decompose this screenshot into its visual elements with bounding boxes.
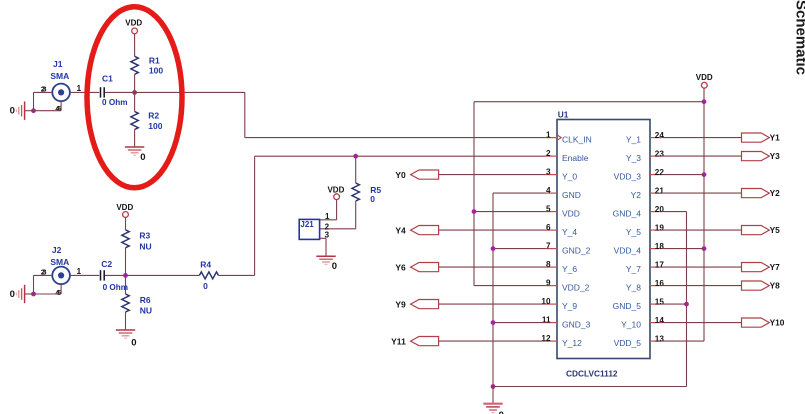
- capacitor C1: [101, 73, 128, 107]
- wire: [662, 322, 742, 324]
- wire: [125, 275, 127, 294]
- svg-text:Y_5: Y_5: [626, 227, 641, 237]
- wire: [662, 174, 705, 176]
- pin 17 stub (Y_7): [626, 260, 664, 274]
- pin 19 stub (Y_5): [626, 223, 664, 237]
- svg-text:3: 3: [546, 167, 551, 176]
- svg-text:Y7: Y7: [770, 262, 781, 272]
- wire: [493, 193, 546, 386]
- output connector Y9: [395, 299, 438, 309]
- node C2 junction: [123, 273, 128, 278]
- ground (below R6): [116, 330, 137, 349]
- svg-text:0: 0: [332, 261, 337, 272]
- svg-text:GND_3: GND_3: [562, 320, 591, 330]
- output connector Y7: [742, 262, 781, 272]
- ground (J2, rotated): [10, 285, 25, 303]
- svg-text:16: 16: [655, 279, 665, 288]
- svg-text:NU: NU: [140, 306, 152, 316]
- wire: [25, 101, 61, 111]
- svg-text:Y_12: Y_12: [562, 338, 582, 348]
- svg-text:Y0: Y0: [395, 170, 406, 180]
- svg-text:GND_4: GND_4: [613, 209, 642, 219]
- svg-text:C2: C2: [101, 259, 112, 269]
- svg-text:R4: R4: [200, 260, 211, 270]
- svg-text:24: 24: [655, 131, 665, 140]
- svg-text:Y_8: Y_8: [626, 283, 641, 293]
- wire: [320, 201, 356, 229]
- svg-text:Y8: Y8: [770, 281, 781, 291]
- svg-text:VDD: VDD: [696, 73, 713, 82]
- output connector Y2: [742, 188, 781, 198]
- svg-text:VDD_2: VDD_2: [562, 283, 590, 293]
- node GND_2 junction: [491, 246, 496, 251]
- output connector Y3: [742, 151, 781, 161]
- connector J2 SMA: [41, 245, 82, 297]
- wire: [125, 217, 127, 229]
- svg-text:5: 5: [546, 204, 551, 213]
- wire: [320, 200, 337, 220]
- output connector Y1: [742, 133, 781, 143]
- pin 10 stub (Y_9): [541, 297, 577, 311]
- svg-text:R1: R1: [149, 55, 160, 65]
- power symbol VDD (R3 top): [116, 203, 133, 218]
- wire: [134, 74, 136, 92]
- svg-text:18: 18: [655, 242, 665, 251]
- svg-text:1: 1: [546, 130, 551, 139]
- svg-text:J2: J2: [52, 245, 62, 255]
- wire: [493, 248, 546, 250]
- wire: [662, 229, 742, 231]
- svg-text:J1: J1: [53, 59, 63, 69]
- svg-text:CLK_IN: CLK_IN: [562, 135, 592, 145]
- wire: [134, 130, 136, 148]
- svg-text:20: 20: [655, 205, 665, 214]
- node VDD pin5 junction: [472, 209, 477, 214]
- svg-text:Y_1: Y_1: [626, 135, 641, 145]
- pin 12 stub (Y_12): [541, 334, 582, 348]
- svg-text:13: 13: [655, 334, 665, 343]
- svg-text:Y_3: Y_3: [626, 153, 641, 163]
- pin 21 stub (Y2): [631, 186, 665, 200]
- svg-text:6: 6: [546, 223, 551, 232]
- node VDD rail junction: [702, 99, 707, 104]
- svg-text:Y2: Y2: [631, 190, 642, 200]
- svg-text:R6: R6: [140, 295, 151, 305]
- svg-text:4: 4: [546, 186, 551, 195]
- node VDD_4 junction: [702, 246, 707, 251]
- wire: [662, 303, 687, 305]
- svg-text:Y10: Y10: [770, 318, 785, 328]
- svg-text:C1: C1: [102, 73, 113, 83]
- svg-text:100: 100: [149, 65, 163, 75]
- wire: [134, 92, 136, 111]
- pin 11 stub (GND_3): [542, 315, 591, 329]
- wire: [493, 322, 546, 324]
- ground (J1, rotated): [10, 102, 25, 120]
- output connector Y8: [742, 281, 781, 291]
- svg-text:J21: J21: [300, 220, 314, 229]
- svg-text:Y11: Y11: [391, 336, 406, 346]
- pin 6 stub (Y_4): [546, 223, 578, 237]
- ground (J21): [316, 256, 337, 272]
- svg-text:VDD: VDD: [562, 209, 580, 219]
- resistor R5: [352, 183, 381, 204]
- wire: [320, 238, 326, 256]
- svg-text:0: 0: [499, 410, 504, 414]
- pin 23 stub (Y_3): [626, 149, 664, 163]
- svg-text:Y1: Y1: [770, 133, 781, 143]
- wire: [662, 340, 705, 342]
- node VDD_3 junction: [702, 172, 707, 177]
- svg-text:22: 22: [655, 168, 665, 177]
- wire: [662, 211, 687, 213]
- svg-text:5: 5: [57, 104, 61, 113]
- wire: [439, 340, 546, 342]
- svg-text:0: 0: [140, 152, 145, 163]
- pin 14 stub (Y_10): [621, 316, 664, 330]
- wire: [662, 192, 742, 194]
- wire: [105, 274, 126, 276]
- power symbol VDD (J21): [327, 186, 344, 200]
- wire: [703, 88, 705, 341]
- svg-text:0: 0: [203, 281, 208, 291]
- pin 13 stub (VDD_5): [614, 334, 665, 348]
- svg-text:VDD_3: VDD_3: [614, 172, 642, 182]
- power symbol VDD (right rail): [696, 73, 713, 88]
- wire: [474, 102, 704, 286]
- svg-text:SMA: SMA: [50, 71, 69, 81]
- svg-text:R2: R2: [148, 110, 159, 120]
- svg-text:Y_7: Y_7: [626, 264, 641, 274]
- wire: [662, 266, 742, 268]
- wire: [34, 275, 53, 294]
- ground (bottom center): [483, 404, 504, 414]
- wire: [34, 92, 53, 110]
- svg-text:19: 19: [655, 223, 665, 232]
- wire: [135, 92, 546, 137]
- output connector Y5: [742, 225, 781, 235]
- svg-text:Y_0: Y_0: [562, 172, 577, 182]
- svg-text:Y6: Y6: [395, 262, 406, 272]
- svg-text:17: 17: [655, 260, 665, 269]
- pin 15 stub (GND_5): [613, 297, 665, 311]
- node bottom GND junction: [491, 384, 496, 389]
- wire: [25, 284, 61, 294]
- power symbol VDD (R1 top): [125, 19, 142, 34]
- output connector Y6: [395, 262, 438, 272]
- svg-text:Y9: Y9: [395, 299, 406, 309]
- pin 5 stub (VDD): [546, 204, 580, 218]
- node CLK divider junction: [132, 90, 137, 95]
- pin 18 stub (VDD_4): [614, 242, 665, 256]
- svg-text:0 Ohm: 0 Ohm: [102, 98, 127, 107]
- svg-text:100: 100: [148, 121, 162, 131]
- svg-text:0: 0: [10, 289, 15, 300]
- pin 24 stub (Y_1): [626, 131, 664, 145]
- svg-text:9: 9: [546, 278, 551, 287]
- svg-text:5: 5: [57, 288, 61, 297]
- svg-text:GND: GND: [562, 190, 581, 200]
- wire: [493, 387, 687, 404]
- svg-text:NU: NU: [139, 241, 151, 251]
- ground (below R2): [125, 147, 146, 163]
- svg-text:15: 15: [655, 297, 665, 306]
- wire: [439, 303, 546, 305]
- node J2 ground junction: [31, 292, 36, 297]
- svg-text:Y3: Y3: [770, 151, 781, 161]
- wire: [125, 248, 127, 276]
- pin 2 stub (Enable): [546, 149, 589, 163]
- wire: [70, 91, 99, 93]
- wire: [439, 174, 546, 176]
- wire: [662, 285, 742, 287]
- node J1 ground junction: [31, 108, 36, 113]
- output connector Y0: [395, 170, 438, 180]
- svg-text:Y5: Y5: [770, 225, 781, 235]
- output connector Y4: [395, 225, 438, 235]
- svg-text:Y_10: Y_10: [621, 320, 641, 330]
- svg-text:Y4: Y4: [395, 225, 406, 235]
- svg-text:GND_2: GND_2: [562, 246, 591, 256]
- svg-text:Enable: Enable: [562, 153, 589, 163]
- wire: [218, 156, 545, 275]
- svg-text:U1: U1: [558, 109, 569, 119]
- wire: [134, 34, 136, 57]
- svg-text:Y_6: Y_6: [562, 264, 577, 274]
- svg-text:2: 2: [546, 149, 551, 158]
- svg-text:8: 8: [546, 260, 551, 269]
- pin 4 stub (GND): [546, 186, 581, 200]
- capacitor C2: [101, 259, 129, 292]
- resistor R1: [131, 55, 163, 75]
- svg-text:R3: R3: [139, 230, 150, 240]
- wire: [70, 274, 99, 276]
- node Enable/R5 junction: [353, 154, 358, 159]
- resistor R2: [131, 110, 163, 131]
- wire: [686, 212, 688, 387]
- svg-text:VDD: VDD: [125, 19, 142, 28]
- wire: [662, 155, 742, 157]
- connector J21: [299, 212, 330, 240]
- output connector Y11: [391, 336, 438, 346]
- svg-text:23: 23: [655, 149, 665, 158]
- svg-text:GND_5: GND_5: [613, 301, 642, 311]
- wire: [125, 312, 127, 330]
- svg-text:7: 7: [546, 241, 551, 250]
- output connector Y10: [742, 318, 785, 328]
- resistor R6: [122, 294, 152, 316]
- pin 8 stub (Y_6): [546, 260, 578, 274]
- svg-text:0: 0: [370, 194, 375, 204]
- pin 22 stub (VDD_3): [614, 168, 665, 182]
- pin 7 stub (GND_2): [546, 241, 591, 255]
- pin 9 stub (VDD_2): [546, 278, 590, 292]
- wire: [474, 211, 546, 213]
- wire: [126, 274, 200, 276]
- wire: [662, 137, 742, 139]
- wire: [439, 266, 546, 268]
- svg-text:VDD_4: VDD_4: [614, 246, 642, 256]
- pin 16 stub (Y_8): [626, 279, 664, 293]
- svg-text:Y_9: Y_9: [562, 301, 577, 311]
- pin 3 stub (Y_0): [546, 167, 578, 181]
- svg-text:21: 21: [655, 186, 665, 195]
- svg-text:14: 14: [655, 316, 665, 325]
- connector J1 SMA: [41, 59, 82, 113]
- node GND_3 junction: [491, 320, 496, 325]
- svg-text:1: 1: [325, 212, 330, 221]
- pin 20 stub (GND_4): [613, 205, 665, 219]
- wire: [662, 248, 705, 250]
- node GND_5 junction: [684, 302, 689, 307]
- svg-text:0: 0: [131, 338, 136, 349]
- svg-text:CDCLVC1112: CDCLVC1112: [566, 368, 618, 378]
- wire: [105, 91, 135, 93]
- pin 1 stub (CLK_IN): [546, 130, 592, 144]
- svg-text:Y2: Y2: [770, 188, 781, 198]
- svg-text:Y_4: Y_4: [562, 227, 577, 237]
- svg-text:0 Ohm: 0 Ohm: [103, 283, 128, 292]
- resistor R4: [199, 260, 218, 292]
- svg-text:0: 0: [10, 106, 15, 117]
- svg-text:VDD_5: VDD_5: [614, 338, 642, 348]
- IC U1 CDCLVC1112 body: [557, 109, 650, 378]
- svg-text:VDD: VDD: [116, 203, 133, 212]
- wire: [355, 156, 357, 183]
- svg-text:SMA: SMA: [50, 257, 69, 267]
- svg-text:Schematic: Schematic: [793, 0, 805, 75]
- resistor R3: [122, 230, 152, 252]
- highlight ellipse (red annotation): [87, 7, 182, 188]
- wire: [439, 229, 546, 231]
